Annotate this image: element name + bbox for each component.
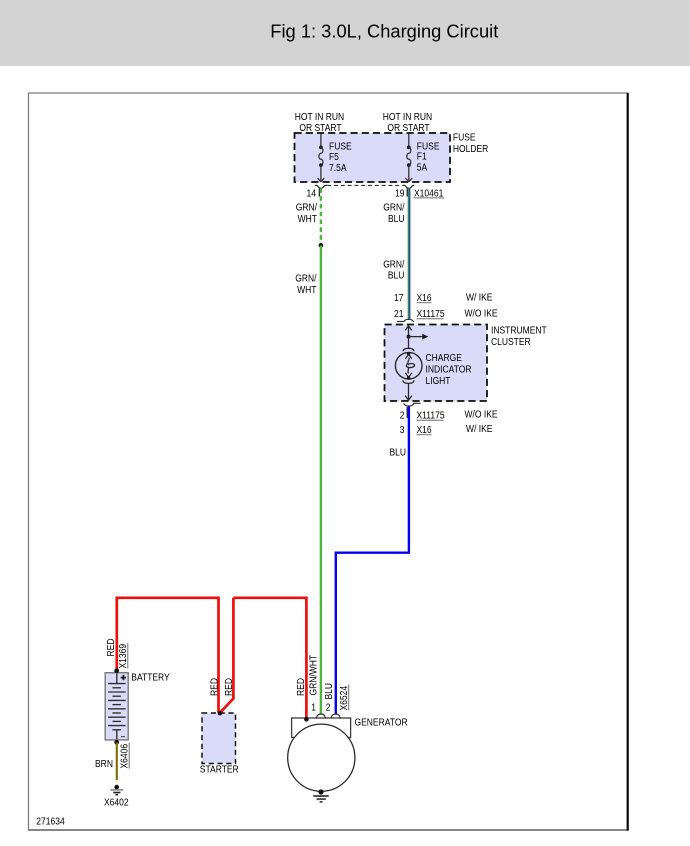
charge indicator light bulb bbox=[395, 348, 422, 400]
generator red junction dot bbox=[304, 717, 309, 722]
connector X10461 dashed link line bbox=[327, 184, 402, 186]
generator pin 2 arc bbox=[331, 714, 341, 718]
svg-text:X1369: X1369 bbox=[118, 644, 129, 669]
wire GRN/BLU (green half) bbox=[408, 188, 409, 319]
svg-text:X6524: X6524 bbox=[339, 686, 350, 711]
label INSTRUMENT CLUSTER bbox=[491, 326, 547, 349]
cluster exit arc pin 2 bbox=[404, 403, 421, 406]
label BLU (generator riser, rotated) bbox=[324, 683, 335, 700]
svg-text:GRN/: GRN/ bbox=[383, 259, 404, 270]
connector X10461 pin 19 arc bbox=[403, 185, 415, 188]
starter box bbox=[202, 713, 236, 764]
svg-text:2: 2 bbox=[400, 411, 405, 422]
svg-text:GENERATOR: GENERATOR bbox=[355, 717, 408, 728]
wire BRN battery to ground bbox=[116, 742, 118, 780]
label GRN/WHT (generator riser, rotated) bbox=[309, 655, 320, 696]
cluster internal right arrow bbox=[409, 334, 429, 340]
fuse holder box bbox=[295, 133, 451, 182]
svg-text:HOLDER: HOLDER bbox=[453, 144, 488, 155]
svg-text:3: 3 bbox=[400, 425, 405, 436]
wire RED battery to starter (left loop) bbox=[117, 598, 219, 713]
pin tick 14 bbox=[319, 188, 320, 196]
label STARTER bbox=[200, 765, 239, 776]
svg-text:2: 2 bbox=[326, 703, 331, 714]
svg-text:CLUSTER: CLUSTER bbox=[491, 337, 531, 348]
svg-text:F1: F1 bbox=[417, 151, 427, 162]
cluster internal wire with up arrow bbox=[405, 326, 412, 348]
svg-text:W/ IKE: W/ IKE bbox=[466, 292, 493, 303]
svg-text:STARTER: STARTER bbox=[200, 765, 239, 776]
connector label X10461 bbox=[414, 189, 445, 200]
svg-text:BATTERY: BATTERY bbox=[131, 673, 170, 684]
label BLU bbox=[390, 448, 407, 459]
label X6524 (rotated, underlined) bbox=[339, 685, 350, 711]
wire RED starter right riser with diagonal bbox=[220, 598, 233, 713]
wire GRN/WHT solid run to generator bbox=[320, 245, 322, 714]
generator pin 1 arc bbox=[316, 714, 326, 718]
svg-text:HOT IN RUN: HOT IN RUN bbox=[383, 112, 432, 123]
connector X10461 pin 14 arc bbox=[315, 185, 327, 188]
pin number 14 bbox=[307, 189, 317, 200]
label BATTERY bbox=[131, 673, 170, 684]
label FUSE HOLDER bbox=[453, 133, 488, 156]
svg-text:F5: F5 bbox=[329, 152, 339, 163]
battery bbox=[105, 673, 128, 740]
svg-text:19: 19 bbox=[395, 189, 405, 200]
svg-text:W/O IKE: W/O IKE bbox=[465, 308, 498, 319]
label CHARGE INDICATOR LIGHT bbox=[426, 353, 472, 387]
svg-text:INDICATOR: INDICATOR bbox=[426, 365, 472, 376]
svg-text:GRN/: GRN/ bbox=[296, 203, 317, 214]
label GRN/BLU (lower) bbox=[383, 259, 404, 281]
fuse F5 value labels bbox=[329, 141, 352, 174]
generator pin number 2 bbox=[326, 703, 331, 714]
pin number 19 bbox=[395, 189, 405, 200]
starter junction dot bbox=[218, 711, 222, 715]
generator pin number 1 bbox=[311, 703, 316, 714]
pin tick 2 bbox=[407, 407, 408, 418]
generator body bbox=[288, 718, 355, 791]
wire GRN/WHT dashed segment bbox=[320, 188, 322, 244]
fuse F1 5A bbox=[405, 134, 412, 182]
svg-text:GRN/: GRN/ bbox=[295, 274, 316, 285]
svg-text:X6402: X6402 bbox=[104, 797, 129, 808]
label GRN/WHT (lower) bbox=[295, 274, 316, 296]
svg-text:INSTRUMENT: INSTRUMENT bbox=[491, 326, 547, 337]
svg-text:CHARGE: CHARGE bbox=[426, 353, 463, 364]
svg-text:RED: RED bbox=[296, 678, 307, 696]
inline connector pin 3 X16 W/ IKE bbox=[400, 424, 493, 436]
svg-text:FUSE: FUSE bbox=[329, 141, 352, 152]
svg-text:LIGHT: LIGHT bbox=[426, 376, 451, 387]
title banner bbox=[0, 0, 690, 66]
inline connector pin 17 X16 W/ IKE bbox=[394, 292, 493, 304]
cluster internal junction dot bbox=[407, 335, 411, 339]
svg-text:HOT IN RUN: HOT IN RUN bbox=[295, 112, 344, 123]
svg-text:X6406: X6406 bbox=[119, 744, 130, 769]
svg-text:BRN: BRN bbox=[95, 759, 113, 770]
svg-text:271634: 271634 bbox=[36, 816, 65, 827]
battery top junction dot bbox=[114, 668, 119, 673]
fuse F5 7.5A bbox=[318, 134, 325, 182]
figure number 271634 bbox=[36, 816, 65, 827]
label HOT IN RUN OR START (right) bbox=[383, 112, 432, 134]
svg-text:W/O IKE: W/O IKE bbox=[465, 409, 498, 420]
svg-text:5A: 5A bbox=[417, 163, 428, 174]
svg-text:17: 17 bbox=[394, 293, 404, 304]
svg-text:BLU: BLU bbox=[388, 214, 405, 225]
svg-text:1: 1 bbox=[311, 703, 316, 714]
svg-text:BLU: BLU bbox=[324, 683, 335, 700]
label GRN/WHT (upper) bbox=[296, 203, 317, 225]
label RED (battery riser, rotated) bbox=[106, 639, 117, 657]
label X6406 (rotated, underlined) bbox=[119, 743, 130, 769]
svg-text:21: 21 bbox=[394, 309, 404, 320]
svg-text:14: 14 bbox=[307, 189, 317, 200]
label X1369 (rotated, underlined) bbox=[118, 643, 129, 669]
diagram frame bbox=[28, 93, 629, 831]
svg-text:RED: RED bbox=[209, 678, 220, 696]
instrument cluster box bbox=[385, 325, 488, 402]
svg-text:RED: RED bbox=[224, 678, 235, 696]
svg-text:FUSE: FUSE bbox=[453, 133, 476, 144]
wire GRN/BLU (blue half) bbox=[409, 188, 410, 319]
inline connector pin 21 X11175 W/O IKE bbox=[394, 308, 498, 320]
svg-text:WHT: WHT bbox=[297, 285, 316, 296]
svg-text:BLU: BLU bbox=[388, 271, 405, 282]
splice dot on GRN/WHT wire bbox=[319, 243, 324, 248]
pin tick 19 bbox=[407, 188, 408, 196]
svg-text:BLU: BLU bbox=[390, 448, 407, 459]
label RED (starter left riser, rotated) bbox=[209, 678, 220, 696]
label GENERATOR bbox=[355, 717, 408, 728]
svg-text:GRN/: GRN/ bbox=[383, 203, 404, 214]
battery bottom junction dot bbox=[114, 740, 119, 745]
svg-text:GRN/WHT: GRN/WHT bbox=[309, 655, 320, 696]
svg-text:7.5A: 7.5A bbox=[329, 163, 347, 174]
label X6402 bbox=[104, 797, 129, 808]
svg-text:WHT: WHT bbox=[298, 214, 317, 225]
inline connector pin 2 X11175 W/O IKE bbox=[400, 409, 498, 421]
label RED (starter right riser, rotated) bbox=[224, 678, 235, 696]
fuse F1 value labels bbox=[417, 141, 440, 173]
generator ground bbox=[313, 789, 328, 802]
svg-text:W/ IKE: W/ IKE bbox=[466, 424, 493, 435]
label HOT IN RUN OR START (left) bbox=[295, 112, 344, 134]
ground symbol X6402 bbox=[110, 785, 123, 795]
cluster entry arc pin 21 bbox=[397, 319, 414, 322]
label RED (generator riser, rotated) bbox=[296, 678, 307, 696]
label GRN/BLU (upper) bbox=[383, 203, 404, 225]
wire RED to generator bbox=[233, 598, 306, 719]
label BRN bbox=[95, 759, 113, 770]
svg-text:RED: RED bbox=[106, 639, 117, 657]
svg-text:Fig 1: 3.0L, Charging Circuit: Fig 1: 3.0L, Charging Circuit bbox=[270, 20, 498, 41]
wire BLU from cluster to generator bbox=[336, 406, 409, 714]
